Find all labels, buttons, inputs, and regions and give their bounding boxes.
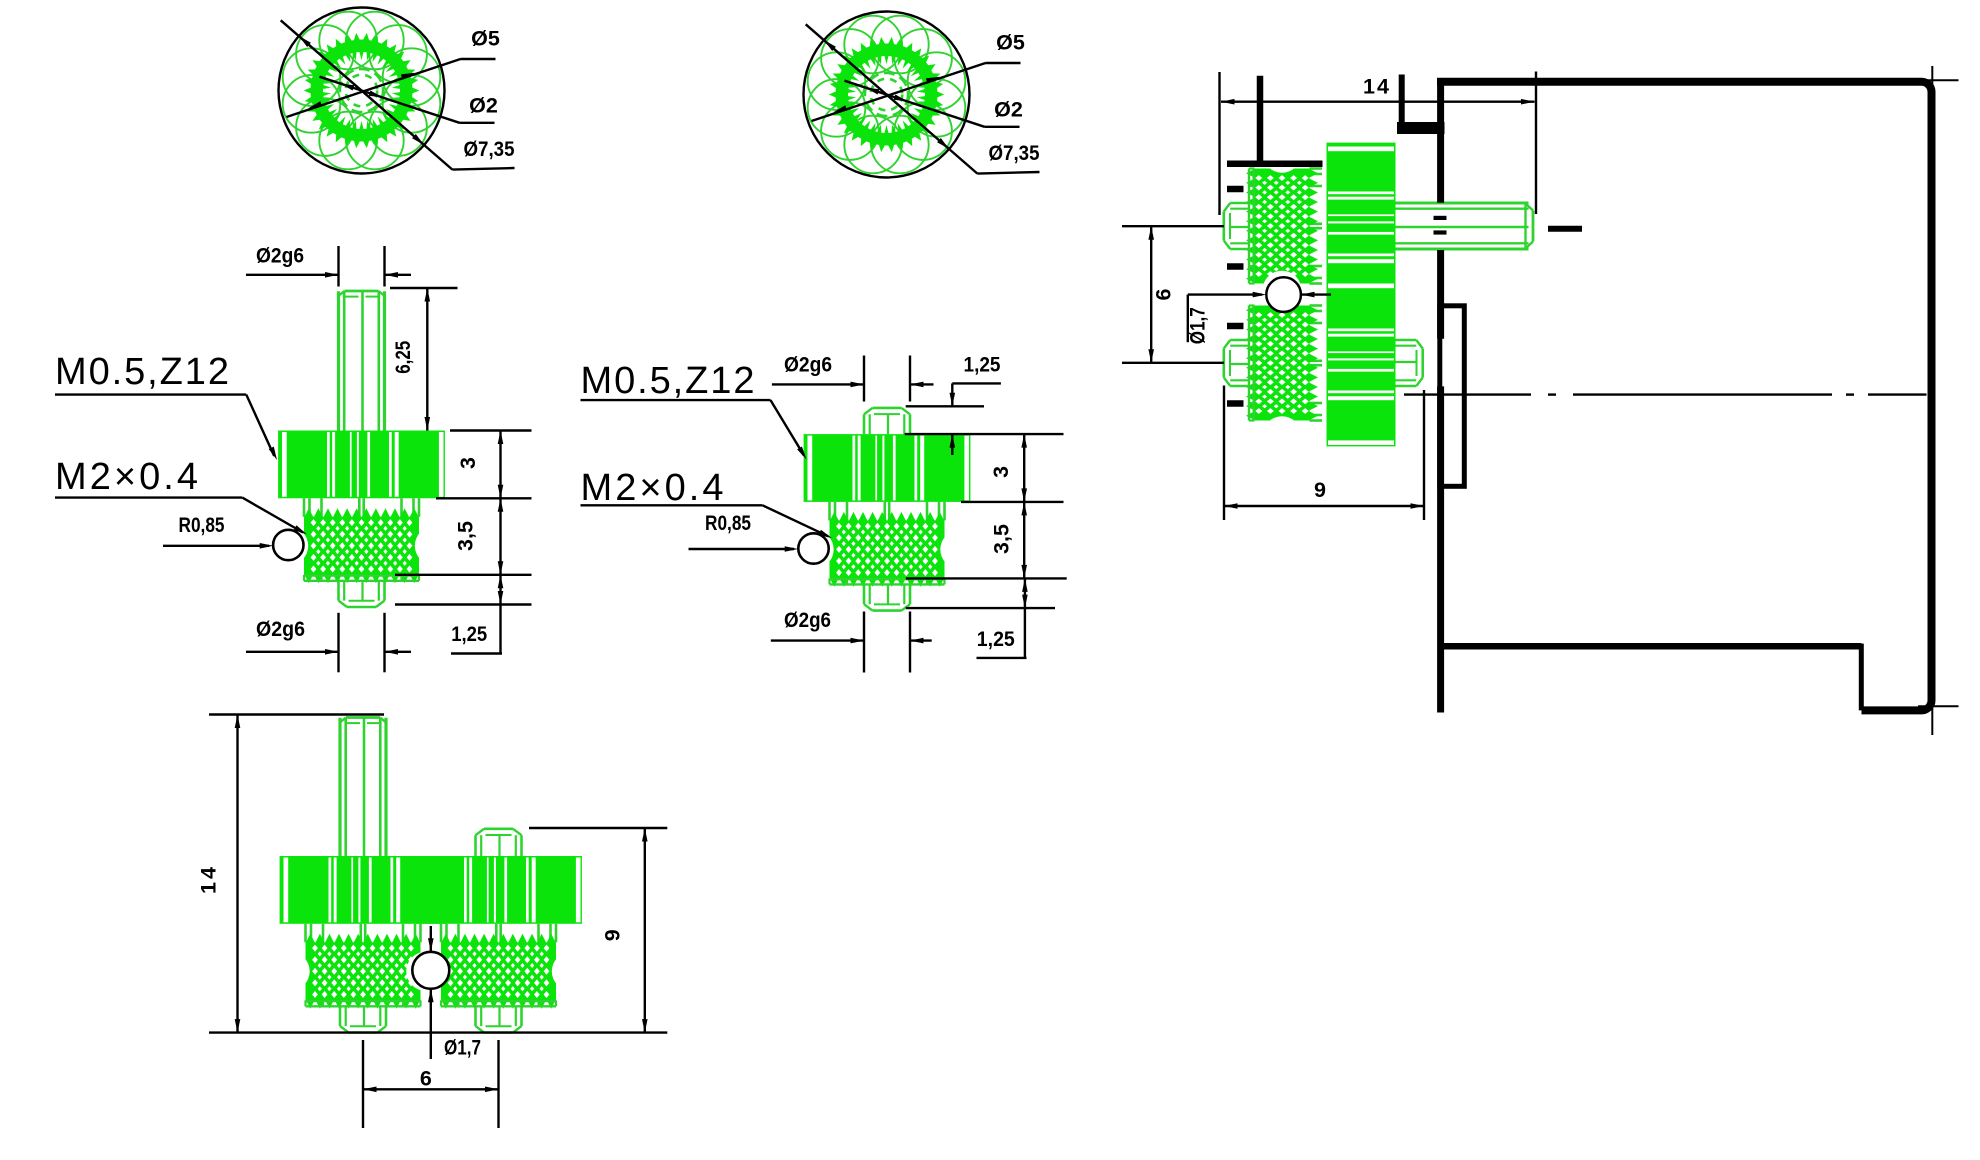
svg-text:9: 9	[600, 929, 624, 941]
A cover flange bar	[1227, 161, 1323, 168]
A top-left hook	[1399, 75, 1405, 123]
svg-text:6,25: 6,25	[391, 341, 415, 374]
svg-text:Ø2g6: Ø2g6	[784, 608, 831, 632]
V3 dim 14	[197, 715, 668, 1033]
A mounting plate	[1437, 78, 1444, 203]
svg-text:Ø2g6: Ø2g6	[784, 353, 832, 377]
V2 dim Ø2g6 bottom	[771, 608, 932, 673]
V1 label M0.5,Z12	[55, 351, 277, 460]
meshed pair view: gear 2	[415, 856, 582, 924]
V1 ext gear top	[450, 429, 532, 431]
V3 circle Ø1,7 + leader	[412, 926, 481, 1060]
meshed pair view: gear 1	[280, 856, 447, 924]
meshed pair view: tall shaft	[338, 718, 341, 856]
side view 1: worm M2x0.4	[303, 498, 306, 517]
svg-text:Ø2g6: Ø2g6	[256, 617, 305, 641]
leader Ø7,35	[281, 20, 515, 169]
svg-text:Ø1,7: Ø1,7	[1186, 307, 1210, 344]
center bore circles	[865, 73, 908, 116]
V1 dim Ø2g6 top	[246, 244, 411, 287]
A bearing bracket loop	[1440, 306, 1465, 487]
svg-text:3,5: 3,5	[989, 524, 1013, 554]
outer circle Ø7.35	[279, 8, 445, 174]
V3 dim 9	[529, 828, 667, 1033]
svg-text:3: 3	[456, 457, 480, 469]
assembly: right stub of axis 2	[1396, 340, 1423, 386]
svg-text:R0,85: R0,85	[705, 512, 751, 535]
meshed pair view: worm 2	[440, 924, 443, 943]
svg-text:Ø5: Ø5	[471, 27, 500, 51]
svg-text:M2×0.4: M2×0.4	[581, 467, 724, 509]
side view 2: top stub	[863, 414, 866, 434]
V2 ext stub top	[906, 405, 984, 407]
svg-text:6: 6	[420, 1067, 432, 1091]
meshed pair view: bottom stub 2	[474, 1006, 477, 1026]
V2 dim 1,25 top	[950, 353, 1001, 456]
svg-text:Ø1,7: Ø1,7	[444, 1036, 481, 1060]
svg-text:Ø2: Ø2	[469, 94, 498, 118]
side view 1: bottom stub	[337, 581, 340, 601]
svg-text:M0.5,Z12: M0.5,Z12	[581, 360, 755, 402]
V2 label M2x0.4	[581, 467, 832, 538]
svg-text:Ø5: Ø5	[996, 31, 1025, 55]
worm wheel top view, petals	[283, 12, 441, 170]
meshed pair view: top stub of shaft 2	[474, 835, 477, 856]
gear teeth ring	[829, 37, 945, 152]
svg-text:M2×0.4: M2×0.4	[55, 456, 198, 498]
V2 dim Ø2g6 top	[772, 353, 934, 402]
svg-text:9: 9	[1314, 478, 1326, 502]
assembly: worm+stub of axis 1 (rotated)	[1224, 134, 1322, 319]
leader Ø5	[812, 31, 1025, 122]
side view 1: output shaft	[337, 291, 340, 430]
worm wheel top view, petals	[808, 16, 966, 174]
meshed pair view: bottom stub 1	[339, 1006, 342, 1026]
V1 ext gear bottom	[436, 497, 532, 499]
svg-text:R0,85: R0,85	[179, 514, 225, 537]
svg-text:6: 6	[1152, 288, 1176, 300]
V1 label M2x0.4	[55, 456, 307, 534]
V1 dim 3	[456, 431, 504, 499]
V3 dim 6	[363, 1040, 499, 1128]
A label Ø1,7 + mesh circle	[1186, 277, 1332, 344]
V2 dim 3	[989, 434, 1027, 502]
assembly: output shaft through plate	[1396, 203, 1534, 249]
V2 ext stub bottom	[906, 607, 1055, 609]
V1 label R0,85 + circle	[163, 514, 303, 560]
meshed pair view: worm 1	[304, 924, 307, 943]
center bore circles	[340, 69, 383, 112]
V2 label R0,85 + circle	[689, 512, 829, 564]
side view 1: gear M0.5 Z12	[278, 431, 445, 499]
A corner ticks	[1918, 79, 1959, 81]
V2 ext gear top	[905, 433, 1064, 435]
V2 dim 3,5	[989, 502, 1027, 579]
A dim 14	[1220, 72, 1537, 216]
svg-text:Ø7,35: Ø7,35	[464, 137, 515, 161]
leader Ø2	[845, 81, 1023, 127]
V2 dim 1,25 bottom	[977, 578, 1028, 658]
side view 2: worm M2x0.4	[828, 502, 831, 521]
svg-text:3: 3	[989, 466, 1013, 478]
A motor top edge + right edge + bottom	[1437, 82, 1932, 711]
A dim 6	[1122, 226, 1224, 363]
side view 2: bottom stub	[863, 584, 866, 604]
A axis centerline dash right of shaft	[1548, 226, 1582, 232]
svg-text:M0.5,Z12: M0.5,Z12	[55, 351, 229, 393]
V1 dim 1,25	[451, 575, 503, 654]
A dim 9	[1224, 386, 1424, 521]
svg-text:Ø7,35: Ø7,35	[989, 141, 1040, 165]
V2 ext gear bottom	[961, 501, 1064, 503]
svg-text:3,5: 3,5	[454, 521, 478, 551]
V2 label M0.5,Z12	[581, 360, 807, 460]
V2 ext worm bottom	[906, 577, 1067, 579]
A cover wall over worm	[1257, 76, 1264, 164]
leader Ø2	[320, 77, 498, 123]
assembly: gear 1 (side)	[1326, 225, 1328, 227]
V1 dim 6,25	[390, 288, 458, 431]
svg-text:Ø2: Ø2	[994, 98, 1023, 122]
side view 2: gear M0.5 Z12	[804, 434, 971, 502]
V1 dim Ø2g6 bottom	[246, 613, 411, 673]
A hidden dashes near worms	[1227, 186, 1244, 193]
outer circle Ø7.35	[804, 12, 970, 178]
gear teeth ring	[304, 33, 420, 148]
leader Ø7,35	[806, 24, 1040, 173]
leader Ø5	[287, 27, 500, 118]
assembly: gear 2 (side)	[1327, 280, 1396, 447]
A motor bottom step	[1859, 644, 1864, 711]
svg-text:Ø2g6: Ø2g6	[256, 244, 304, 268]
A centerline	[1404, 393, 1531, 395]
V1 dim 3,5	[454, 498, 504, 575]
A plate hidden dashes in shaft	[1434, 216, 1447, 220]
svg-text:1,25: 1,25	[964, 353, 1001, 377]
assembly: worm+stub of axis 2 (rotated)	[1224, 271, 1322, 456]
V1 ext stub bottom	[395, 603, 532, 605]
svg-text:1,25: 1,25	[977, 627, 1015, 651]
svg-text:1,25: 1,25	[451, 622, 487, 646]
V1 ext worm bottom	[395, 574, 532, 576]
